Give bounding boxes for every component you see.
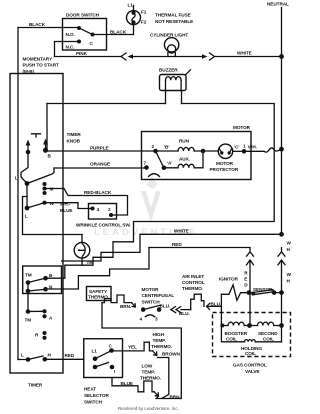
booster coil bbox=[222, 325, 250, 327]
svg-text:THERMO.: THERMO. bbox=[140, 376, 161, 381]
svg-text:PROTECTOR: PROTECTOR bbox=[210, 167, 239, 172]
svg-text:WH.: WH. bbox=[248, 145, 257, 150]
wire ignitor-valve left vertical bbox=[220, 294, 222, 341]
wire blue bbox=[112, 378, 144, 392]
wire white to neutral bbox=[216, 56, 282, 58]
svg-text:PUSH TO START: PUSH TO START bbox=[23, 63, 60, 68]
svg-text:TM: TM bbox=[25, 273, 32, 278]
svg-text:W: W bbox=[50, 201, 55, 206]
connector chevrons right bbox=[202, 54, 208, 58]
svg-text:AUX.: AUX. bbox=[179, 157, 190, 162]
svg-text:WRINKLE CONTROL SW.: WRINKLE CONTROL SW. bbox=[76, 223, 131, 228]
svg-text:DOOR SWITCH: DOOR SWITCH bbox=[66, 13, 100, 18]
svg-text:L1: L1 bbox=[92, 349, 98, 354]
centrifugal contact arc bbox=[149, 174, 160, 177]
heat selector switch bbox=[84, 339, 123, 378]
wire red to valve bbox=[249, 293, 251, 326]
svg-text:TEMP.: TEMP. bbox=[153, 338, 166, 343]
node run-aux junction bbox=[201, 149, 206, 154]
svg-text:IGNITOR: IGNITOR bbox=[219, 277, 239, 282]
connector break white bbox=[278, 248, 285, 257]
svg-text:SWITCH: SWITCH bbox=[142, 300, 161, 305]
svg-text:COIL: COIL bbox=[245, 351, 256, 356]
BOTTOMLEFT bbox=[18, 266, 181, 405]
svg-text:MOTOR: MOTOR bbox=[142, 287, 160, 292]
switch arm L-W bbox=[27, 203, 43, 208]
svg-text:NEUTRAL: NEUTRAL bbox=[267, 2, 289, 7]
svg-text:BROWN: BROWN bbox=[162, 352, 181, 357]
svg-text:COIL: COIL bbox=[263, 336, 274, 341]
node red-ignitor junction bbox=[247, 290, 252, 295]
wrinkle control switch bbox=[89, 204, 117, 220]
MIDSECTION bbox=[46, 229, 292, 293]
svg-text:BLUE: BLUE bbox=[60, 208, 72, 213]
safety thermostat bbox=[87, 287, 112, 301]
TIMERSECTION bbox=[10, 74, 156, 388]
svg-text:TIMER: TIMER bbox=[67, 132, 82, 137]
wire black main vertical bbox=[17, 28, 19, 360]
node L1 dot bbox=[25, 181, 30, 186]
svg-text:WHITE: WHITE bbox=[237, 51, 252, 56]
node sensor-neutral junction bbox=[279, 290, 284, 295]
node booster-second junction bbox=[247, 323, 252, 328]
wire WH. to neutral bbox=[244, 150, 264, 152]
svg-text:AIR INLET: AIR INLET bbox=[182, 274, 204, 279]
svg-text:MOTOR: MOTOR bbox=[216, 161, 234, 166]
svg-text:TEMP.: TEMP. bbox=[142, 370, 155, 375]
svg-text:GAS CONTROL: GAS CONTROL bbox=[233, 363, 267, 368]
timer motor TM bbox=[81, 235, 83, 243]
node junction light-neutral bbox=[279, 54, 284, 59]
svg-text:LOW: LOW bbox=[142, 364, 153, 369]
svg-text:I: I bbox=[114, 369, 115, 374]
svg-text:YEL: YEL bbox=[128, 345, 137, 350]
motor box bbox=[142, 132, 252, 180]
wire TM column bbox=[27, 283, 29, 312]
wire red to heat selector bbox=[45, 358, 84, 360]
svg-text:CYLINDER LIGHT: CYLINDER LIGHT bbox=[150, 33, 188, 38]
svg-text:N.C.: N.C. bbox=[66, 45, 75, 50]
wire buzzer legs bbox=[166, 91, 182, 104]
wire white branch from L column bbox=[23, 197, 83, 235]
wire yellow bbox=[112, 342, 153, 351]
timer box bbox=[10, 74, 63, 374]
wire pink door N.C. bbox=[55, 42, 121, 57]
svg-text:MOMENTARY: MOMENTARY bbox=[23, 57, 53, 62]
node junction motor-neutral bbox=[279, 147, 284, 152]
BOTTOMRIGHT bbox=[87, 274, 291, 374]
motor protector bbox=[218, 144, 232, 158]
wire protector to C bbox=[233, 150, 244, 152]
svg-text:HOLDING: HOLDING bbox=[241, 346, 262, 351]
svg-text:WHITE: WHITE bbox=[174, 229, 189, 234]
svg-text:BLU.: BLU. bbox=[179, 311, 190, 316]
svg-text:L: L bbox=[15, 176, 18, 181]
svg-text:MOTOR: MOTOR bbox=[233, 125, 251, 130]
FOOTER bbox=[118, 406, 179, 411]
wire red stair to N bbox=[46, 248, 150, 290]
wire red-black bbox=[45, 189, 128, 216]
svg-text:BLACK: BLACK bbox=[110, 30, 127, 35]
switch arm L-M / orange takeoff bbox=[27, 168, 54, 184]
svg-text:SAFETY: SAFETY bbox=[89, 289, 108, 294]
wire black door C to fuse bbox=[93, 34, 134, 36]
connector break red bbox=[247, 248, 254, 257]
connector chevron left bbox=[121, 53, 126, 60]
contact W bbox=[42, 201, 46, 205]
wire orange bbox=[54, 167, 147, 169]
svg-text:F2: F2 bbox=[141, 20, 147, 25]
timer contact box bbox=[23, 266, 62, 294]
wire B to timer motor bbox=[46, 277, 65, 279]
wire timer motor to B bbox=[81, 258, 83, 265]
switch arm 2-A bbox=[156, 151, 164, 168]
wire to cylinder light bbox=[130, 56, 203, 58]
contact N bbox=[26, 289, 31, 294]
svg-text:KNOB: KNOB bbox=[67, 139, 81, 144]
svg-text:CONTROL: CONTROL bbox=[182, 280, 205, 285]
wire L column bbox=[26, 184, 28, 209]
svg-text:E: E bbox=[244, 277, 247, 282]
wire buzzer return bbox=[65, 104, 274, 278]
MOTORSECTION bbox=[142, 125, 284, 180]
wire push-start to buzzer bbox=[47, 103, 166, 105]
svg-text:CENTRIFUGAL: CENTRIFUGAL bbox=[142, 293, 175, 298]
svg-text:Rendered by LeadVenture, Inc.: Rendered by LeadVenture, Inc. bbox=[118, 406, 179, 411]
svg-text:'C': 'C' bbox=[234, 145, 239, 150]
svg-text:TIMER: TIMER bbox=[28, 383, 43, 388]
door switch SW1 bbox=[63, 19, 107, 51]
svg-text:F1: F1 bbox=[141, 10, 147, 15]
svg-text:BLU.: BLU. bbox=[160, 304, 171, 309]
svg-text:W: W bbox=[287, 241, 292, 246]
svg-text:TM: TM bbox=[87, 260, 94, 265]
svg-text:THERMO.: THERMO. bbox=[182, 286, 203, 291]
svg-text:N.O.: N.O. bbox=[66, 32, 75, 37]
svg-text:SELECTOR: SELECTOR bbox=[84, 393, 109, 398]
svg-text:HEAT: HEAT bbox=[84, 387, 96, 392]
svg-text:BLUE: BLUE bbox=[121, 381, 133, 386]
svg-text:COIL: COIL bbox=[226, 336, 237, 341]
svg-text:'B': 'B' bbox=[164, 145, 169, 150]
second coil bbox=[250, 325, 282, 327]
node L2 dot bbox=[25, 206, 30, 211]
contact TM-A bbox=[26, 309, 31, 314]
contact M bbox=[42, 182, 46, 186]
svg-text:HIGH: HIGH bbox=[153, 332, 165, 337]
wire wh-blue bbox=[45, 203, 91, 209]
wire black L1 feed bbox=[18, 27, 79, 29]
gas control valve dashed box bbox=[213, 313, 291, 357]
svg-text:PINK: PINK bbox=[76, 51, 88, 56]
svg-text:RED: RED bbox=[65, 353, 75, 358]
wire push-to-start riser bbox=[46, 104, 48, 150]
svg-text:L1: L1 bbox=[128, 3, 134, 8]
svg-text:SWITCH: SWITCH bbox=[84, 400, 103, 405]
svg-text:L: L bbox=[21, 353, 24, 358]
svg-text:WH.-: WH.- bbox=[60, 202, 71, 207]
terminal 2 bbox=[153, 149, 158, 154]
svg-text:BRN.: BRN. bbox=[120, 304, 131, 309]
push-to-start switch bbox=[32, 134, 41, 137]
wire thermostat enclosure bbox=[102, 303, 181, 399]
svg-text:RUN: RUN bbox=[179, 139, 190, 144]
wire neutral to valve bbox=[281, 293, 283, 342]
svg-text:BUZZER: BUZZER bbox=[159, 68, 178, 73]
svg-text:THERMO.: THERMO. bbox=[151, 344, 172, 349]
wire purple bbox=[46, 150, 156, 152]
terminal 1 bbox=[242, 149, 247, 154]
TOPSECTION bbox=[18, 2, 289, 360]
terminal 7 bbox=[144, 165, 149, 170]
svg-text:TM: TM bbox=[25, 318, 32, 323]
high temp thermostat contact arrow bbox=[153, 351, 157, 355]
svg-text:L: L bbox=[25, 214, 28, 219]
node junction white-neutral bbox=[279, 232, 284, 237]
WATERMARK bbox=[94, 172, 198, 238]
svg-text:THERMAL FUSE: THERMAL FUSE bbox=[155, 13, 191, 18]
svg-text:W: W bbox=[287, 272, 292, 277]
wire white main bbox=[62, 234, 282, 261]
wire red main bbox=[149, 247, 250, 249]
svg-text:PURPLE: PURPLE bbox=[90, 146, 109, 151]
svg-text:RED-BLACK: RED-BLACK bbox=[84, 190, 112, 195]
holding coil bbox=[222, 341, 282, 343]
svg-text:VALVE: VALVE bbox=[245, 369, 260, 374]
svg-text:RED: RED bbox=[172, 242, 182, 247]
svg-text:BLACK: BLACK bbox=[29, 22, 46, 27]
svg-text:'A': 'A' bbox=[167, 161, 172, 166]
svg-text:ORANGE: ORANGE bbox=[90, 162, 110, 167]
wire L jog bbox=[21, 152, 28, 184]
svg-text:NOT RESETABLE: NOT RESETABLE bbox=[155, 19, 193, 24]
